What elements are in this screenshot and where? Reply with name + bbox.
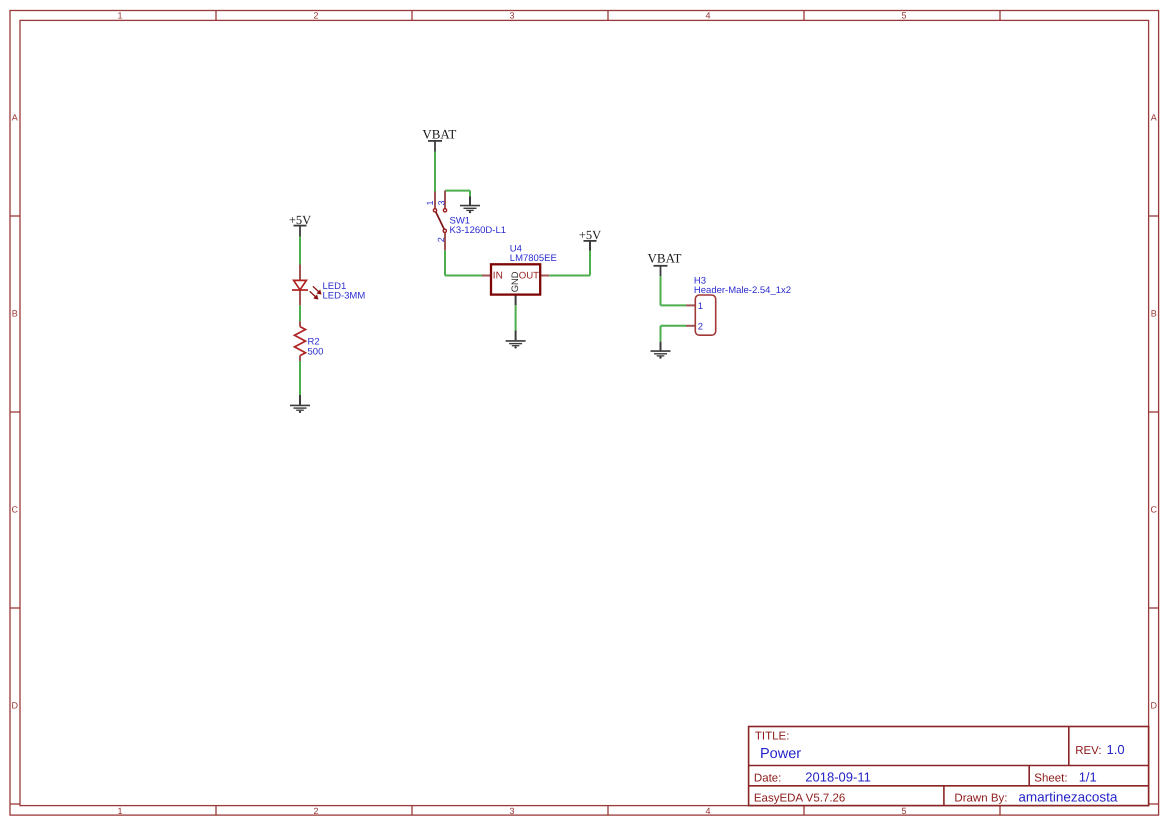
svg-text:2: 2 xyxy=(436,237,446,242)
svg-text:C: C xyxy=(12,505,19,515)
svg-text:TITLE:: TITLE: xyxy=(755,731,790,743)
svg-text:2018-09-11: 2018-09-11 xyxy=(805,770,871,785)
svg-text:1/1: 1/1 xyxy=(1079,770,1097,785)
svg-text:Drawn By:: Drawn By: xyxy=(954,792,1007,804)
svg-text:EasyEDA V5.7.26: EasyEDA V5.7.26 xyxy=(754,792,845,804)
svg-text:REV:: REV: xyxy=(1075,745,1101,757)
svg-text:D: D xyxy=(1151,701,1158,711)
svg-text:LM7805EE: LM7805EE xyxy=(510,253,557,264)
svg-text:IN: IN xyxy=(493,271,503,282)
svg-text:2: 2 xyxy=(313,10,318,20)
svg-text:Power: Power xyxy=(760,746,801,762)
svg-text:LED-3MM: LED-3MM xyxy=(323,290,366,301)
svg-text:5: 5 xyxy=(901,10,906,20)
svg-text:amartinezacosta: amartinezacosta xyxy=(1018,790,1118,805)
svg-text:4: 4 xyxy=(705,806,710,816)
svg-text:1: 1 xyxy=(425,200,435,205)
svg-text:3: 3 xyxy=(437,200,447,205)
svg-text:A: A xyxy=(12,113,18,123)
svg-text:+5V: +5V xyxy=(579,228,601,242)
svg-text:VBAT: VBAT xyxy=(648,251,682,266)
svg-text:1: 1 xyxy=(698,301,703,312)
svg-text:B: B xyxy=(1151,309,1157,319)
svg-text:A: A xyxy=(1151,113,1157,123)
svg-text:3: 3 xyxy=(509,10,514,20)
svg-text:K3-1260D-L1: K3-1260D-L1 xyxy=(450,225,507,236)
svg-text:D: D xyxy=(12,701,19,711)
svg-text:GND: GND xyxy=(509,271,520,292)
svg-text:3: 3 xyxy=(509,806,514,816)
svg-text:OUT: OUT xyxy=(519,271,539,282)
svg-text:2: 2 xyxy=(313,806,318,816)
svg-text:Date:: Date: xyxy=(754,773,782,785)
svg-text:5: 5 xyxy=(901,806,906,816)
svg-text:Header-Male-2.54_1x2: Header-Male-2.54_1x2 xyxy=(694,285,791,296)
svg-text:500: 500 xyxy=(308,347,324,358)
svg-text:B: B xyxy=(12,309,18,319)
svg-text:2: 2 xyxy=(698,322,703,333)
svg-text:1.0: 1.0 xyxy=(1107,742,1125,757)
svg-text:4: 4 xyxy=(705,10,710,20)
svg-text:1: 1 xyxy=(117,806,122,816)
svg-text:C: C xyxy=(1151,505,1158,515)
svg-text:1: 1 xyxy=(117,10,122,20)
svg-text:Sheet:: Sheet: xyxy=(1034,773,1067,785)
svg-text:VBAT: VBAT xyxy=(422,127,456,142)
svg-text:+5V: +5V xyxy=(289,213,311,227)
